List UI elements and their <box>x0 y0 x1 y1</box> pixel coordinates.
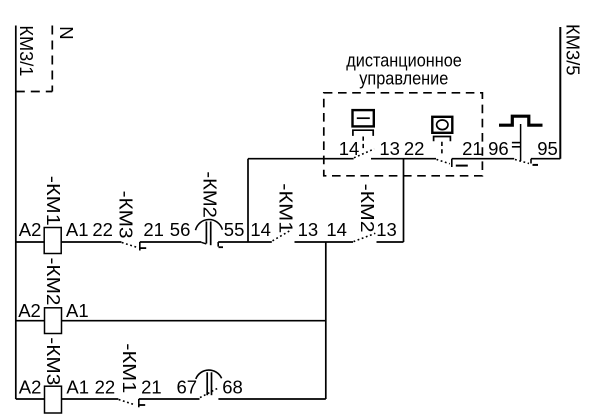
svg-text:68: 68 <box>222 377 243 398</box>
svg-text:-КМ3: -КМ3 <box>43 337 64 385</box>
svg-text:-КМ1: -КМ1 <box>275 183 296 233</box>
svg-text:A2: A2 <box>19 219 42 240</box>
svg-text:14: 14 <box>326 219 347 240</box>
svg-text:-КМ3: -КМ3 <box>115 191 136 239</box>
svg-text:14: 14 <box>250 219 271 240</box>
svg-text:14: 14 <box>339 138 360 159</box>
svg-text:A2: A2 <box>18 300 41 321</box>
svg-text:13: 13 <box>379 138 400 159</box>
svg-text:КМ3/5: КМ3/5 <box>563 24 584 76</box>
svg-text:A1: A1 <box>66 219 89 240</box>
svg-text:-КМ2: -КМ2 <box>357 184 378 233</box>
svg-text:A1: A1 <box>66 377 89 398</box>
svg-text:A2: A2 <box>19 377 42 398</box>
svg-text:55: 55 <box>224 219 245 240</box>
svg-text:-КМ1: -КМ1 <box>43 176 64 226</box>
svg-text:67: 67 <box>177 377 198 398</box>
svg-text:-КМ1: -КМ1 <box>119 343 140 393</box>
svg-text:-КМ2: -КМ2 <box>43 258 64 306</box>
svg-text:22: 22 <box>92 219 113 240</box>
svg-text:56: 56 <box>170 219 191 240</box>
svg-text:13: 13 <box>298 219 319 240</box>
svg-text:21: 21 <box>141 377 162 398</box>
svg-text:21: 21 <box>143 219 164 240</box>
svg-text:-КМ2: -КМ2 <box>199 171 220 218</box>
svg-text:КМ3/1: КМ3/1 <box>16 25 37 76</box>
svg-text:13: 13 <box>376 219 397 240</box>
svg-text:22: 22 <box>95 377 116 398</box>
svg-text:N: N <box>56 26 77 39</box>
svg-text:96: 96 <box>488 138 509 159</box>
svg-text:95: 95 <box>537 138 558 159</box>
svg-text:21: 21 <box>462 138 483 159</box>
svg-text:управление: управление <box>359 67 448 88</box>
svg-text:22: 22 <box>404 138 425 159</box>
svg-text:A1: A1 <box>66 300 89 321</box>
